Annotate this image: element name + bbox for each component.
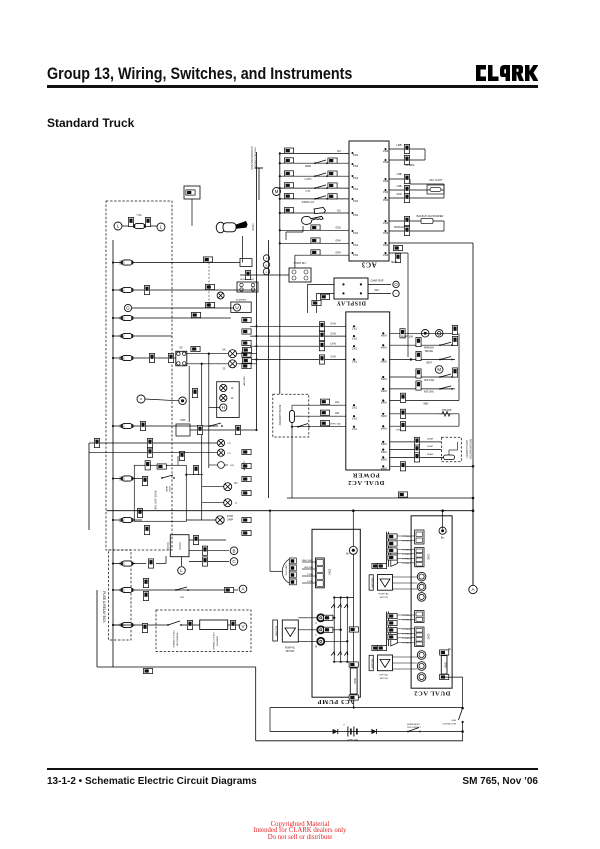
svg-text:>: > — [140, 397, 143, 402]
svg-text:M: M — [437, 367, 441, 372]
svg-text:PA2: PA2 — [383, 149, 389, 153]
svg-text:KB4: KB4 — [381, 377, 387, 381]
svg-text:CTL: CTL — [306, 190, 311, 193]
svg-text:PA1: PA1 — [352, 243, 358, 247]
svg-text:POWER: POWER — [352, 472, 380, 479]
svg-text:SEAT: SEAT — [391, 261, 398, 264]
svg-text:10A: 10A — [122, 424, 125, 429]
svg-text:RIGHT AC: RIGHT AC — [379, 593, 390, 596]
svg-text:PA2: PA2 — [383, 190, 389, 194]
svg-text:A: A — [241, 587, 244, 592]
svg-text:TA7: TA7 — [352, 336, 357, 340]
svg-text:PA1: PA1 — [352, 231, 358, 235]
svg-text:DISCONNECT: DISCONNECT — [407, 727, 421, 729]
svg-text:FLASHER: FLASHER — [236, 299, 247, 302]
svg-text:B4: B4 — [235, 482, 239, 485]
svg-text:ENCODER: ENCODER — [275, 626, 277, 637]
svg-text:DUAL AC2: DUAL AC2 — [414, 689, 451, 696]
svg-text:DC-DC: DC-DC — [166, 542, 169, 550]
svg-text:JIDAT: JIDAT — [427, 445, 434, 448]
svg-text:CONV: CONV — [178, 542, 182, 550]
svg-text:KB4: KB4 — [381, 442, 387, 446]
svg-text:2/SPD LGT: 2/SPD LGT — [302, 201, 315, 204]
svg-text:CAB-C HS1+: CAB-C HS1+ — [302, 559, 314, 562]
svg-text:PTRGB+L: PTRGB+L — [402, 615, 412, 617]
svg-text:PA1: PA1 — [352, 187, 358, 191]
svg-text:CNA: CNA — [328, 569, 332, 575]
svg-text:K: K — [265, 263, 267, 267]
svg-text:CAN L/MP: CAN L/MP — [243, 376, 246, 386]
svg-text:PTRGB+L: PTRGB+L — [402, 554, 412, 556]
svg-text:L: L — [160, 225, 163, 230]
svg-text:AC3: AC3 — [361, 261, 376, 269]
svg-text:10A: 10A — [122, 260, 125, 265]
svg-text:KEY LIGHT: KEY LIGHT — [429, 179, 442, 182]
svg-text:ACCESSORIES GND: ACCESSORIES GND — [250, 146, 253, 170]
svg-text:GRN: GRN — [335, 252, 341, 255]
svg-text:L: L — [266, 270, 268, 274]
svg-text:10A: 10A — [122, 518, 125, 523]
svg-text:HMS: HMS — [180, 420, 186, 422]
svg-text:V: V — [241, 624, 244, 629]
svg-text:JGA: JGA — [335, 401, 340, 404]
svg-text:JIDAR: JIDAR — [427, 438, 434, 441]
svg-text:GROUND (CHASSIS): GROUND (CHASSIS) — [254, 147, 257, 169]
svg-text:PA1: PA1 — [352, 253, 358, 257]
svg-text:MB2: MB2 — [424, 402, 430, 405]
svg-text:LEFT AC: LEFT AC — [379, 674, 388, 677]
svg-text:F3: F3 — [118, 425, 120, 428]
svg-text:MOTOR: MOTOR — [380, 678, 389, 680]
svg-text:KEY: KEY — [375, 289, 380, 292]
svg-text:GND: GND — [335, 227, 341, 230]
svg-text:MOTOR: MOTOR — [286, 651, 295, 653]
svg-text:KB4: KB4 — [381, 389, 387, 393]
svg-text:-: - — [395, 291, 397, 296]
svg-text:M1: M1 — [337, 210, 341, 213]
svg-text:PTRGB+L: PTRGB+L — [402, 549, 412, 551]
svg-text:CHAR DISP: CHAR DISP — [370, 280, 383, 283]
svg-text:TA7: TA7 — [352, 405, 357, 409]
svg-text:LMB: LMB — [397, 174, 402, 176]
svg-text:TA7: TA7 — [352, 416, 357, 420]
svg-text:H: H — [222, 405, 225, 410]
svg-text:PA2: PA2 — [383, 221, 389, 225]
svg-text:10A: 10A — [122, 588, 125, 593]
svg-text:PA1: PA1 — [352, 176, 358, 180]
svg-text:10A: 10A — [122, 288, 125, 293]
svg-text:PTRGB+L: PTRGB+L — [402, 541, 412, 543]
svg-text:10A: 10A — [122, 316, 125, 321]
svg-text:B+: B+ — [448, 647, 452, 651]
svg-text:PTRGB+L: PTRGB+L — [402, 620, 412, 622]
svg-text:DUAL AC2: DUAL AC2 — [348, 479, 385, 486]
svg-text:TA7: TA7 — [352, 327, 357, 331]
svg-text:P GND: P GND — [307, 574, 314, 576]
svg-text:DISPLAY: DISPLAY — [336, 300, 366, 306]
svg-text:A: A — [471, 587, 474, 592]
svg-text:M/S ONU: M/S ONU — [424, 392, 434, 394]
svg-text:T/S: T/S — [227, 443, 231, 445]
svg-text:ENCODER: ENCODER — [371, 659, 373, 669]
svg-text:F12: F12 — [118, 518, 120, 523]
svg-text:STOP: STOP — [227, 516, 234, 518]
svg-text:M/S ASW: M/S ASW — [424, 379, 435, 382]
svg-text:+: + — [343, 723, 345, 727]
svg-text:TA7: TA7 — [352, 346, 357, 350]
svg-text:EMR: EMR — [305, 165, 311, 168]
svg-text:F2: F2 — [118, 289, 120, 292]
svg-text:BACKUP ALM BUZZER: BACKUP ALM BUZZER — [417, 215, 444, 218]
svg-text:PA1: PA1 — [352, 164, 358, 168]
svg-text:KB4: KB4 — [381, 345, 387, 349]
svg-text:W: W — [315, 645, 318, 648]
svg-text:HN: HN — [230, 465, 234, 467]
svg-text:T/S: T/S — [227, 453, 231, 455]
svg-text:HEAD: HEAD — [165, 486, 168, 492]
svg-text:THERMOSTAT: THERMOSTAT — [176, 632, 179, 647]
svg-text:+: + — [265, 256, 267, 260]
svg-text:S/W: S/W — [180, 597, 185, 599]
svg-text:10: 10 — [231, 388, 234, 390]
svg-text:10A: 10A — [122, 561, 125, 566]
svg-text:M1: M1 — [337, 150, 341, 153]
svg-text:5: 5 — [235, 502, 237, 505]
svg-text:CAN: CAN — [330, 356, 335, 359]
svg-text:LINE: LINE — [451, 720, 456, 722]
svg-text:MOTOR: MOTOR — [380, 597, 389, 599]
svg-text:PA2: PA2 — [383, 160, 389, 164]
svg-text:25: 25 — [223, 367, 226, 371]
svg-text:F9: F9 — [118, 317, 120, 320]
svg-text:KB4: KB4 — [381, 401, 387, 405]
svg-text:F2: F2 — [118, 589, 120, 592]
svg-text:PA1: PA1 — [352, 153, 358, 157]
svg-text:PTRGB+L: PTRGB+L — [402, 642, 412, 644]
svg-text:PA1: PA1 — [352, 213, 358, 217]
svg-text:KB4: KB4 — [381, 414, 387, 418]
svg-text:ENCODER: ENCODER — [371, 578, 373, 588]
svg-text:START RLY: START RLY — [294, 262, 307, 265]
svg-text:SEAT: SEAT — [426, 362, 432, 365]
svg-text:KB4: KB4 — [381, 450, 387, 454]
svg-text:KB4: KB4 — [381, 334, 387, 338]
svg-text:LAMP: LAMP — [227, 518, 234, 521]
svg-text:10: 10 — [231, 398, 234, 400]
svg-text:B+: B+ — [346, 552, 350, 556]
svg-text:CAN: CAN — [330, 323, 335, 326]
svg-text:KB4: KB4 — [381, 467, 387, 471]
svg-text:PA2: PA2 — [383, 231, 389, 235]
svg-text:PTRGB+L: PTRGB+L — [402, 629, 412, 631]
svg-text:2/SPD 10A: 2/SPD 10A — [330, 423, 341, 426]
svg-text:MODULE: MODULE — [394, 227, 404, 229]
svg-text:B: B — [232, 548, 235, 553]
svg-text:COLD STORAGE: COLD STORAGE — [172, 630, 175, 648]
svg-text:5A: 5A — [222, 348, 225, 352]
svg-text:200A: 200A — [444, 662, 447, 668]
svg-text:F2: F2 — [118, 562, 120, 565]
svg-text:LMB: LMB — [397, 186, 402, 188]
svg-text:B+: B+ — [441, 536, 445, 540]
svg-text:10A: 10A — [122, 334, 125, 339]
svg-text:GND: GND — [396, 194, 401, 196]
svg-text:7.5A: 7.5A — [136, 214, 141, 217]
svg-text:PA1: PA1 — [352, 199, 358, 203]
svg-text:PUMP JSM: PUMP JSM — [401, 337, 413, 339]
svg-text:ACCELERATOR: ACCELERATOR — [465, 440, 468, 458]
svg-text:KB4: KB4 — [381, 458, 387, 462]
svg-text:10A: 10A — [122, 476, 125, 481]
svg-text:HEATERS: HEATERS — [216, 636, 219, 647]
svg-text:PTRGB+L: PTRGB+L — [402, 558, 412, 560]
svg-text:PA2: PA2 — [383, 179, 389, 183]
svg-text:CNC: CNC — [427, 554, 431, 560]
svg-text:F10: F10 — [118, 261, 120, 266]
svg-text:C: C — [232, 559, 236, 564]
svg-text:ORN: ORN — [335, 240, 341, 243]
svg-text:HORN: HORN — [251, 223, 254, 230]
svg-text:KB4: KB4 — [381, 360, 387, 364]
svg-text:JAD: JAD — [335, 412, 340, 415]
svg-text:CAN: CAN — [330, 332, 335, 335]
svg-text:PTRGB+L: PTRGB+L — [402, 633, 412, 635]
svg-text:KB4: KB4 — [381, 426, 387, 430]
svg-text:G: G — [126, 306, 130, 311]
svg-text:300A: 300A — [353, 678, 356, 684]
svg-text:REAR LIGHT S/W: REAR LIGHT S/W — [154, 491, 157, 511]
svg-text:PA2: PA2 — [383, 253, 389, 257]
svg-text:CAN: CAN — [330, 342, 335, 345]
svg-text:POTENTIOMETER: POTENTIOMETER — [469, 439, 472, 460]
svg-text:ACCELERATOR: ACCELERATOR — [278, 405, 282, 426]
svg-text:CNC: CNC — [427, 633, 431, 639]
svg-text:LIGHT: LIGHT — [168, 486, 170, 493]
svg-text:PARKING: PARKING — [424, 347, 434, 350]
svg-text:L: L — [180, 568, 183, 573]
svg-text:O: O — [394, 282, 398, 287]
svg-text:PUMP AC: PUMP AC — [285, 647, 296, 650]
svg-text:PTRGB+L: PTRGB+L — [402, 536, 412, 538]
svg-text:TA7: TA7 — [352, 360, 357, 364]
svg-text:10A: 10A — [122, 356, 125, 361]
svg-text:PA2: PA2 — [383, 198, 389, 202]
svg-text:U: U — [235, 305, 238, 310]
svg-text:LGTN: LGTN — [305, 178, 312, 181]
svg-text:ALARM: ALARM — [406, 163, 415, 167]
svg-text:EMERGENCY: EMERGENCY — [407, 724, 421, 726]
svg-text:V: V — [315, 634, 317, 637]
svg-text:M: M — [275, 189, 279, 194]
svg-text:BATTERY: BATTERY — [347, 738, 358, 741]
svg-text:CAN L/MP: CAN L/MP — [243, 461, 246, 471]
svg-text:COLD STORAGE: COLD STORAGE — [212, 632, 215, 650]
svg-text:PTRGB+L: PTRGB+L — [402, 638, 412, 640]
svg-text:GND GND: GND GND — [304, 567, 314, 569]
svg-text:F13: F13 — [118, 477, 120, 482]
svg-text:U: U — [315, 622, 317, 625]
svg-text:F1: F1 — [118, 624, 120, 627]
svg-text:CAB-C HS1: CAB-C HS1 — [285, 564, 288, 576]
svg-text:LMB: LMB — [397, 144, 402, 147]
svg-text:PTRGB+L: PTRGB+L — [402, 563, 412, 565]
svg-text:JIDAW: JIDAW — [427, 453, 435, 456]
svg-text:PA2: PA2 — [383, 243, 389, 247]
svg-text:TA7: TA7 — [352, 427, 357, 431]
svg-text:L: L — [117, 224, 120, 229]
svg-text:F7: F7 — [118, 335, 120, 338]
svg-text:BRAKE: BRAKE — [425, 350, 433, 353]
svg-text:CONTACTOR: CONTACTOR — [442, 722, 456, 725]
svg-text:S5: S5 — [179, 346, 183, 350]
svg-text:P GND: P GND — [307, 581, 314, 583]
svg-text:FUSE & RELAY BOX: FUSE & RELAY BOX — [102, 591, 106, 623]
svg-text:F14: F14 — [118, 356, 120, 361]
